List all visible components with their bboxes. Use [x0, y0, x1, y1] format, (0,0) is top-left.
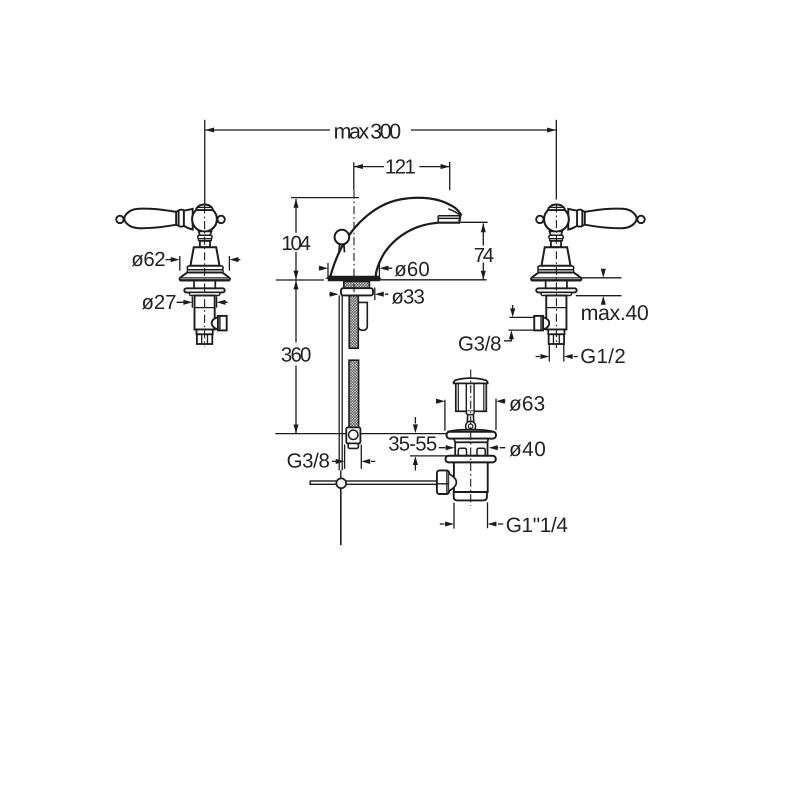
svg-text:74: 74 — [474, 245, 494, 267]
svg-text:G3/8: G3/8 — [287, 450, 330, 472]
svg-text:ø27: ø27 — [142, 292, 177, 314]
svg-text:360: 360 — [281, 345, 312, 367]
svg-text:G3/8: G3/8 — [458, 333, 502, 355]
svg-text:G1/2: G1/2 — [580, 346, 626, 368]
svg-text:ø63: ø63 — [509, 393, 545, 416]
svg-text:max.40: max.40 — [581, 301, 649, 325]
svg-text:ø62: ø62 — [131, 249, 165, 271]
svg-text:max 300: max 300 — [334, 119, 402, 143]
svg-text:ø60: ø60 — [394, 259, 430, 281]
svg-text:35-55: 35-55 — [388, 434, 437, 456]
svg-text:104: 104 — [281, 233, 311, 255]
svg-text:ø33: ø33 — [391, 287, 425, 309]
svg-text:121: 121 — [385, 156, 416, 178]
svg-text:ø40: ø40 — [509, 438, 546, 461]
svg-text:G1"1/4: G1"1/4 — [506, 514, 568, 537]
